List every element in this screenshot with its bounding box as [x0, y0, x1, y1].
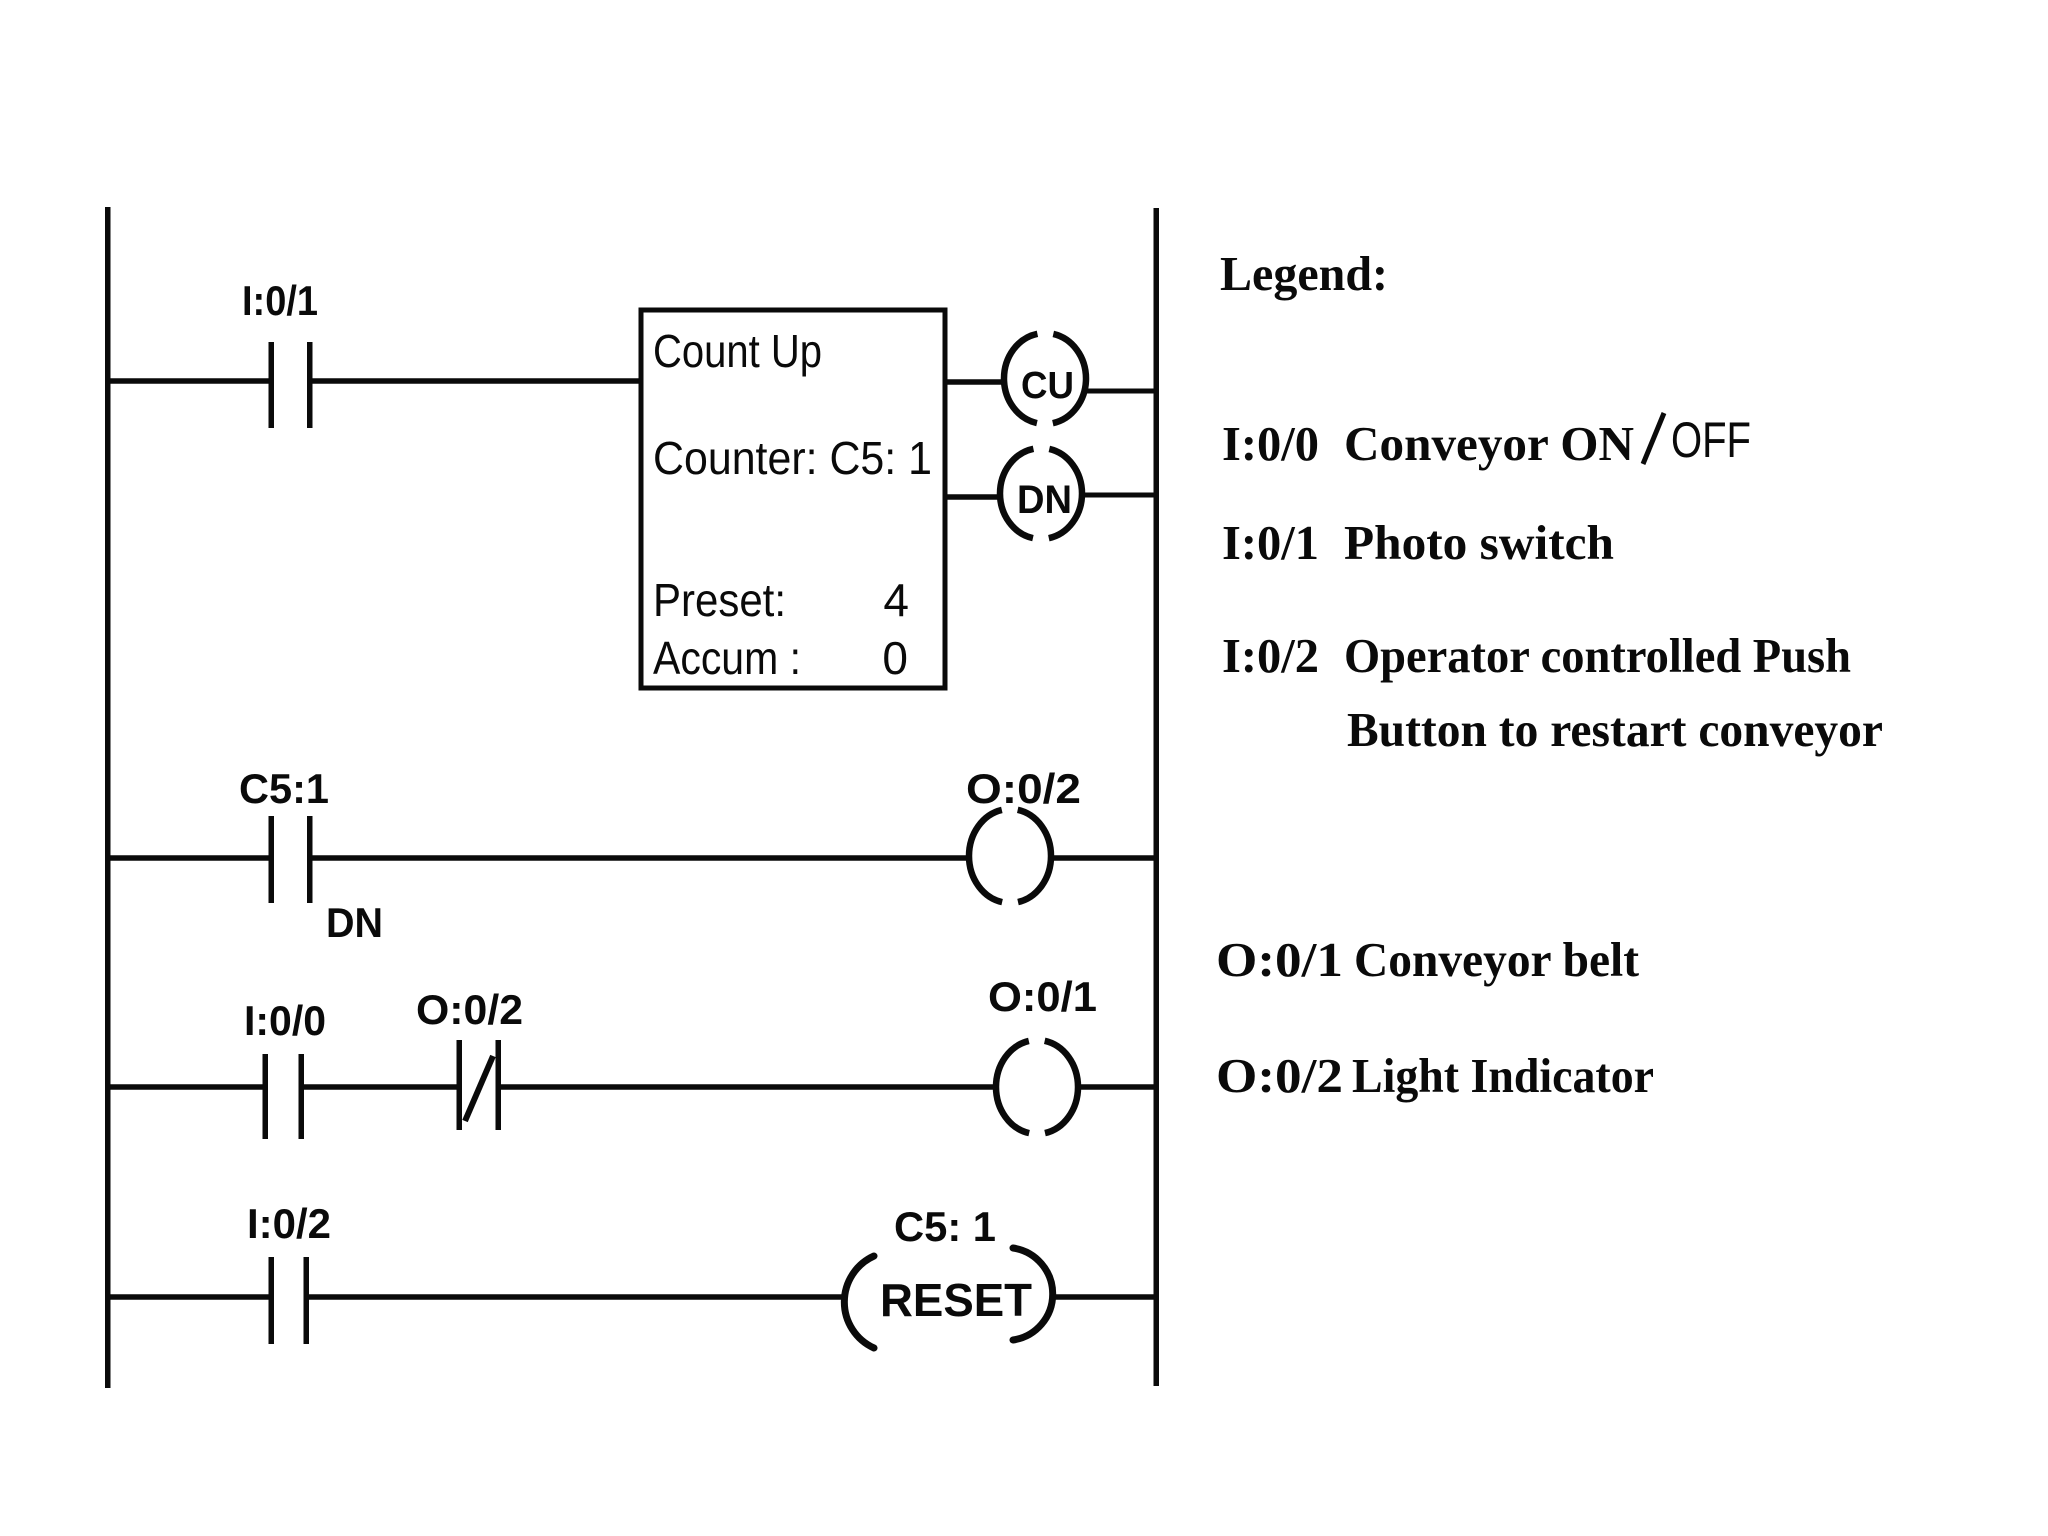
wire rung2 from contact to coil O:0/2	[312, 855, 970, 861]
svg-text:Button to restart conveyor: Button to restart conveyor	[1347, 702, 1883, 757]
left power rail	[105, 207, 111, 1388]
legend I:0/1	[1222, 515, 1614, 570]
svg-text:Light Indicator: Light Indicator	[1352, 1048, 1654, 1103]
wire rung1 from left rail to contact I:0/1	[107, 378, 269, 384]
wire rung3 coil to right rail	[1078, 1084, 1154, 1090]
svg-text:C5:1: C5:1	[239, 765, 329, 812]
wire rung2 coil to right rail	[1051, 855, 1154, 861]
svg-text:CU: CU	[1021, 365, 1074, 407]
svg-text:O:0/1: O:0/1	[988, 973, 1097, 1020]
svg-text:OFF: OFF	[1671, 412, 1751, 468]
svg-text:C5: 1: C5: 1	[894, 1203, 996, 1250]
svg-text:Photo switch: Photo switch	[1344, 515, 1614, 570]
counter box U1 (CTU)	[641, 310, 945, 688]
contact C5:1/DN (XIC)	[269, 816, 313, 903]
svg-text:Count Up: Count Up	[653, 325, 822, 377]
svg-text:DN: DN	[326, 899, 383, 946]
svg-text:O:0/1: O:0/1	[1216, 932, 1343, 987]
svg-text:Counter: C5: 1: Counter: C5: 1	[653, 432, 932, 484]
svg-text:I:0/0: I:0/0	[1222, 416, 1319, 471]
wire counter box to CU output	[945, 379, 1007, 385]
legend O:0/1	[1216, 932, 1640, 987]
svg-text:Preset:: Preset:	[653, 574, 786, 626]
svg-text:0: 0	[882, 632, 908, 684]
wire rung3 between contacts	[303, 1084, 457, 1090]
right power rail	[1154, 208, 1160, 1386]
svg-text:I:0/1: I:0/1	[242, 277, 318, 324]
svg-text:Operator controlled Push: Operator controlled Push	[1344, 628, 1851, 683]
svg-text:DN: DN	[1017, 478, 1072, 522]
svg-text:Conveyor belt: Conveyor belt	[1354, 932, 1640, 987]
reset coil C5:1 (RES)	[844, 1248, 1052, 1348]
svg-text:I:0/0: I:0/0	[244, 997, 326, 1044]
wire rung4 RESET to right rail	[1054, 1294, 1154, 1300]
contact I:0/1 (XIC, normally open)	[269, 342, 313, 428]
coil O:0/1	[996, 1040, 1078, 1134]
wire rung4 from left rail to contact I:0/2	[107, 1294, 269, 1300]
wire rung2 from left rail to contact C5:1	[107, 855, 269, 861]
output DN (counter done bit)	[1000, 448, 1082, 539]
svg-text:Accum :: Accum :	[653, 632, 801, 684]
legend I:0/2	[1222, 628, 1883, 757]
contact I:0/2 (XIC)	[269, 1257, 310, 1344]
svg-text:Legend:: Legend:	[1220, 246, 1388, 301]
svg-text:I:0/2: I:0/2	[247, 1200, 331, 1247]
contact I:0/0 (XIC)	[263, 1054, 305, 1139]
wire counter box to DN output	[945, 494, 1001, 500]
svg-text:O:0/2: O:0/2	[1216, 1048, 1343, 1103]
wire rung3 from left rail to contact I:0/0	[107, 1084, 263, 1090]
svg-text:I:0/1: I:0/1	[1222, 515, 1319, 570]
wire CU to right rail	[1086, 389, 1154, 394]
svg-text:I:0/2: I:0/2	[1222, 628, 1319, 683]
svg-text:O:0/2: O:0/2	[416, 986, 523, 1033]
output CU (counter count-up bit)	[1004, 333, 1086, 424]
svg-text:RESET: RESET	[880, 1274, 1032, 1326]
svg-text:Conveyor ON: Conveyor ON	[1344, 416, 1634, 471]
legend I:0/0	[1222, 412, 1751, 471]
contact O:0/2 (XIO, normally closed)	[457, 1040, 502, 1130]
coil O:0/2	[969, 809, 1051, 903]
legend O:0/2	[1216, 1048, 1654, 1103]
svg-text:4: 4	[883, 574, 909, 626]
wire DN to right rail	[1083, 493, 1154, 498]
wire rung4 from contact to RESET	[308, 1294, 843, 1300]
svg-text:O:0/2: O:0/2	[966, 765, 1081, 812]
wire rung3 from NC contact to coil O:0/1	[501, 1084, 997, 1090]
wire rung1 from contact I:0/1 to counter box	[312, 378, 641, 384]
